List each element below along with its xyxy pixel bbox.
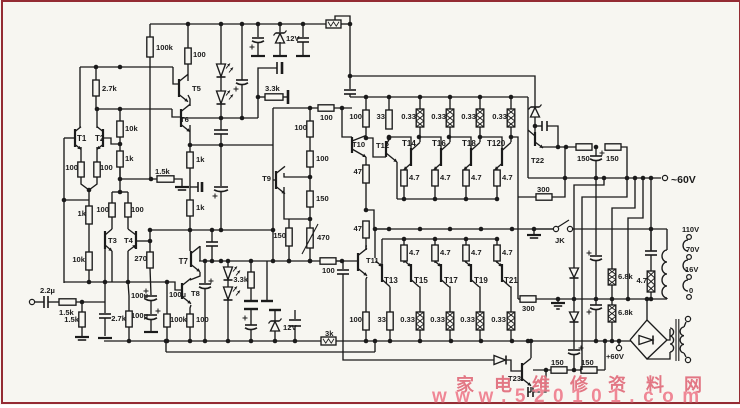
junction bottom rail x=619 [617,339,622,344]
svg-text:2.7k: 2.7k [102,84,118,93]
wire 0.33 upper top x=480 [479,97,481,109]
svg-text:100: 100 [65,163,78,172]
wire T9 emitter [284,187,310,219]
junction y179 / divider column [118,177,123,182]
wire T10 collector link [365,127,367,138]
junction on top rail x=280 [278,22,283,27]
junction 1k top [188,143,193,148]
wire line y230 [150,229,273,231]
resistor 100k feedback [164,314,188,327]
junction T23 collector rail [529,339,534,344]
wire T13 emitter riser [374,229,376,258]
wire 3.3k lower top [250,261,252,272]
svg-text:+60V: +60V [606,352,625,361]
wire T22 cap left [535,125,542,127]
wire 6.8k upper bottom [611,285,613,299]
junction top output rail x=366 [364,95,369,100]
zener 12V lower [269,319,298,333]
ground near T7 [175,187,189,190]
wire mains pri top [684,322,686,327]
wire T5 base drop [173,67,178,84]
wire 6.8k lower stems [611,299,613,305]
resistor 150 top a [576,144,592,163]
wire series cap feed [258,68,277,118]
svg-text:T13: T13 [384,276,398,285]
wire 4.7 bottom T16 [434,186,436,199]
junction on top rail x=258 [256,22,261,27]
svg-text:0: 0 [689,286,693,295]
wire T14 base stub [389,137,411,150]
wire 295 bottom [294,326,296,341]
wire 267 stem [266,261,268,300]
transistor T16 [432,139,450,170]
junction emitter line a [556,145,561,150]
svg-text:2.7k: 2.7k [111,314,127,323]
wire 596 low stems [595,299,597,305]
svg-text:0.33: 0.33 [401,112,416,121]
wire T6 emitter [189,125,191,152]
svg-text:4.7: 4.7 [409,173,420,182]
wire T10 base feed [342,108,352,137]
wire T4 base to 270 node [136,240,150,242]
wire output rail y229 [374,228,556,230]
junction y299 x=651 [649,297,654,302]
junction on top rail x=350 [348,22,353,27]
mains transformer right winding [680,327,684,353]
wire 10k bottom [88,270,90,282]
svg-text:150: 150 [606,154,619,163]
junction on top rail x=242 [240,22,245,27]
wire 275 stem [274,310,276,321]
junction bottom rail x=605 [603,339,608,344]
svg-text:1.5k: 1.5k [155,167,171,176]
wire T11 base [336,260,358,262]
wire T11 emitter link [366,246,367,250]
wire 4.7 T19 stub [465,239,467,245]
junction y261 x=342 [340,259,345,264]
svg-text:10k: 10k [125,124,138,133]
wire rail drop from fuse node [349,24,351,76]
svg-text:4.7: 4.7 [471,173,482,182]
wire T9 base stub [273,179,276,181]
capacitor rail 350 [344,90,356,94]
transistor T5 [179,74,202,101]
capacitor 651 [645,251,657,255]
wire input to cap [35,301,44,303]
wire 1k to y230 [189,216,191,251]
svg-text:100k: 100k [156,43,174,52]
terminal 16V [687,275,692,280]
wire 251 plates link [250,309,252,325]
junction y261 x=251 [249,259,254,264]
wire T19 emitter link [465,261,467,263]
wire 10k top [119,109,121,121]
svg-text:0.33: 0.33 [491,315,506,324]
wire T12 collector link [388,138,390,140]
thermistor slash [302,224,318,254]
resistor 100 T4 load [125,203,144,217]
wire 1.5k to node [76,301,105,303]
wire 4.7 bottom T14 [403,186,405,199]
svg-text:T17: T17 [444,276,458,285]
capacitor 258 electrolytic [250,38,265,50]
transistor T15 [405,261,429,287]
wire T14 collector link [419,127,421,142]
svg-text:T5: T5 [192,84,202,93]
resistor 10k upper [117,121,139,137]
switch JK blade [558,220,569,227]
junction 150 470 top [308,217,313,222]
junction between 150s [594,145,599,150]
capacitor electrolytic mid [213,187,229,199]
resistor 10k tail [72,252,92,270]
junction bottom rail x=481 [479,339,484,344]
wire top rail right segment [341,23,350,25]
svg-text:~60V: ~60V [671,174,696,186]
wire lower base rail [382,238,497,240]
svg-text:T1: T1 [77,134,87,143]
svg-text:150: 150 [577,154,590,163]
junction y230 line left end [148,228,153,233]
wire node cap to ground [104,318,106,336]
svg-text:100: 100 [322,266,335,275]
wire y179 line [120,178,157,180]
wire T23 cap right [533,370,546,392]
wire line y352 [166,351,375,353]
wire diode col y299 stem [573,299,575,312]
wire T4 emitter drop [127,251,129,282]
svg-text:110V: 110V [682,225,699,234]
svg-text:100µ: 100µ [131,291,148,300]
junction input node [80,300,85,305]
wire load stub left [111,192,113,203]
ground y299 [551,303,565,309]
wire 0.33 lower bottom T15 [419,330,421,341]
wire T3 base column [104,249,106,302]
wire winding bottom stem [666,298,668,299]
wire bottom rail left [104,340,321,342]
junction y299 x=574 [572,297,577,302]
junction 100k top [165,280,170,285]
resistor 4.7 matching [636,271,654,292]
svg-text:150: 150 [551,358,564,367]
svg-text:270: 270 [134,254,147,263]
junction x350 y76 [348,74,353,79]
label 110V [682,225,699,234]
junction bottom rail x=295 [293,339,298,344]
wire 33 col top [388,97,390,110]
svg-text:0.33: 0.33 [400,315,415,324]
label 16V [685,265,698,274]
svg-text:T15: T15 [414,276,428,285]
junction minus rail x=651 [649,176,654,181]
resistor 4.7 T19 [463,245,482,261]
mains transformer core [676,319,679,361]
wire y352 riser [374,341,376,352]
wire T120 base stub [480,137,502,150]
wire bias line y67 [80,66,173,68]
output transformer winding [662,250,667,298]
svg-text:1k: 1k [125,154,134,163]
junction base rail x=466 [464,237,469,242]
wire ecap 574 to 150 line [573,355,575,370]
wire tap line [64,199,89,201]
transistor T7 [179,246,200,271]
ground at output line [527,235,541,238]
capacitor electrolytic 574 [568,346,584,355]
wire 205 column bottom [204,289,206,341]
led D1 with arrows [217,64,234,78]
transistor T9 [262,166,285,193]
wire stair b [582,178,627,370]
wire 100 column top [309,108,311,121]
svg-text:16V: 16V [685,265,698,274]
resistor 150 a [307,191,329,207]
wire tail to 1k [88,190,90,206]
wire emitter join left [81,177,89,190]
wire T16 collector link [449,127,451,142]
wire 300a riser [552,147,565,197]
resistor 1k tail [78,206,93,224]
wire T3 collector [111,217,113,229]
resistor 47 T10 [354,165,370,183]
wire 251 bottom [250,330,252,341]
wire top rail left segment [150,23,326,25]
resistor 100 T2 emitter [94,162,113,177]
wire T15 collector link [419,287,420,312]
capacitor 100u lower [131,309,161,321]
svg-text:T12: T12 [376,141,389,150]
junction T120 node [509,135,514,140]
wire 4.7 bottom T120 [496,186,498,199]
svg-text:0.33: 0.33 [431,112,446,121]
svg-text:150: 150 [316,194,329,203]
junction 4.7 rail x=435 [433,197,438,202]
wire 0.33 lower bottom T19 [479,330,481,341]
junction y352 riser [373,339,378,344]
resistor 100 to T11 base [320,258,336,275]
junction T14 base feed [387,135,392,140]
resistor 0.33 upper x=420 [401,109,424,127]
wire 2.7k lower top [128,282,129,311]
capacitor plate after 3.3k [287,90,290,104]
junction 4.7 rail x=404 [402,197,407,202]
resistor 33 upper [377,110,393,129]
junction minus rail x=604 [602,176,607,181]
junction T4 emitter feedback node [126,280,131,285]
wire T8 emitter [190,305,191,314]
ground input shunt [75,337,89,340]
wire 100 col top [365,97,367,110]
wire T18 collector link [479,127,481,142]
wire output top rail [350,96,528,98]
junction y282 / tail [87,280,92,285]
wire led2 to base line [220,104,222,118]
wire 0.33 upper top x=420 [419,97,421,109]
svg-text:0.33: 0.33 [492,112,507,121]
svg-text:4.7: 4.7 [409,248,420,257]
wire diode to T23 base [506,360,522,371]
led D4 with arrows [224,287,241,301]
wire led col to cap [220,118,222,130]
resistor 100 horizontal [318,105,334,122]
svg-text:150: 150 [581,358,594,367]
resistor 0.33 upper x=480 [461,109,484,127]
wire ecap 596 top stem [595,147,597,156]
resistor 270 [134,252,153,268]
wire y108 right [334,107,352,109]
wire mains pri bottom [684,353,686,357]
mains transformer left winding [670,328,674,352]
resistor 100 T10 collector [349,110,369,127]
transistor T17 [435,261,459,287]
wire bridge top riser [646,299,648,321]
svg-text:T10: T10 [352,140,365,149]
diode rectifier b [570,312,579,322]
junction T6 base line / led col [219,116,224,121]
led D2 with arrows [217,91,234,105]
wire between 100u caps [150,300,152,314]
svg-text:1k: 1k [78,209,87,218]
fuse F1 on positive rail [326,20,341,28]
resistor 150 bottom b [581,358,597,373]
resistor 0.33 lower T19 [460,312,484,330]
resistor 4.7 T120 [494,170,513,186]
zener T22 feed [529,105,542,118]
svg-text:T6: T6 [180,115,189,124]
wire T19 collector link [479,287,480,312]
wire 596 col upper [595,178,597,255]
wire 4.7 common rail [397,198,497,200]
wire led1 to led2 [220,77,222,91]
wire output jog [366,210,389,229]
transistor T14 [402,139,420,170]
ground 303 [296,55,310,57]
capacitor small at 1k junction [198,182,202,192]
transistor T11 [358,248,379,275]
wire minus60 rail [528,177,661,179]
junction bottom rail x=129 [127,339,132,344]
svg-text:T14: T14 [402,139,416,148]
wire 270 bottom to 100u [150,268,151,295]
zener 12V top [274,31,301,44]
transistor T12 [376,140,397,163]
capacitor electrolytic 251 [243,316,258,330]
wire cap to y145 [220,134,222,145]
switch JK throw [567,226,572,231]
wire T5 emitter to T6 [188,95,190,106]
junction top output rail x=420 [418,95,423,100]
junction y299 x=596 [594,297,599,302]
svg-text:2.2µ: 2.2µ [40,286,55,295]
svg-text:T18: T18 [462,139,476,148]
wire cap 350 to rail [349,94,351,97]
wire ground stub JK [533,229,535,234]
resistor 100 T5 collector [185,48,206,64]
junction bias line / 10k column [118,65,123,70]
switch JK pole [553,226,558,231]
wire 4.7 T17 stub [434,239,436,245]
svg-text:3.3k: 3.3k [233,275,248,284]
transistor T8 [182,278,200,303]
bridge rectifier diamond [630,320,667,359]
resistor 300 top [536,185,552,200]
junction y261 x=289 [287,259,292,264]
resistor 0.33 upper x=450 [431,109,454,127]
watermark url [432,386,708,408]
junction 4.7 rail x=466 [464,197,469,202]
junction top output rail x=450 [448,95,453,100]
junction y261 x=205 [203,259,208,264]
wire 300b left [518,298,520,300]
wire 3.3k lower bottom [250,288,252,300]
junction T2 base / divider [118,142,123,147]
svg-text:100: 100 [320,113,333,122]
junction y299 x=628 [626,297,631,302]
junction T120 base feed [478,135,483,140]
wire T7 emitter to T8 [190,272,200,280]
input terminal [29,299,34,304]
wire line y261 [199,260,342,262]
wire 258 to ground [257,43,259,55]
wire 6.8k lower bottom [611,322,613,341]
svg-text:100k: 100k [170,315,188,324]
wire 470 bottom [309,248,311,261]
svg-text:33: 33 [378,315,386,324]
junction y299 x=558 [556,297,561,302]
wire 47b to T11 [365,238,367,250]
svg-text:6.8k: 6.8k [618,308,634,317]
resistor 100 a [294,121,313,137]
wire 205 column top [204,261,206,283]
svg-text:4.7: 4.7 [471,248,482,257]
svg-text:1k: 1k [196,203,205,212]
wire y352 link down [165,341,167,352]
resistor 3.3k lower [233,272,254,288]
resistor 100 lower [349,312,369,330]
svg-text:4.7: 4.7 [440,173,451,182]
junction base rail x=404 [402,237,407,242]
wire ground stub 558 [557,299,559,302]
resistor 1k second [187,200,205,216]
wire between 1k pair [189,168,191,200]
capacitor electrolytic 596 low [587,305,603,315]
junction bias line / 2.7k [94,65,99,70]
junction bottom rail x=366 [364,339,369,344]
wire cap212 bottom [211,246,213,261]
resistor 1k divider [117,151,134,167]
junction y352 left [164,339,169,344]
ground 280 [273,55,287,57]
junction 150b bottom [287,259,292,264]
capacitor input node [99,314,111,318]
led D3 with arrows [224,267,241,281]
transistor T1 [75,127,87,150]
junction 470 bottom [308,259,313,264]
junction y299 x=647 [645,297,650,302]
wire switch to transformer [573,228,667,230]
svg-text:150: 150 [273,231,286,240]
wire T6 base line [181,117,258,119]
resistor 300 lower [520,296,536,313]
terminal +60V [616,345,621,350]
junction output jog [364,208,369,213]
wire T13 collector link [389,287,391,312]
capacitor series top [277,62,282,74]
wire T7 collector [199,246,201,261]
wire 1k bottom to T3T4 load line [119,167,121,192]
junction 100k rail [165,339,170,344]
